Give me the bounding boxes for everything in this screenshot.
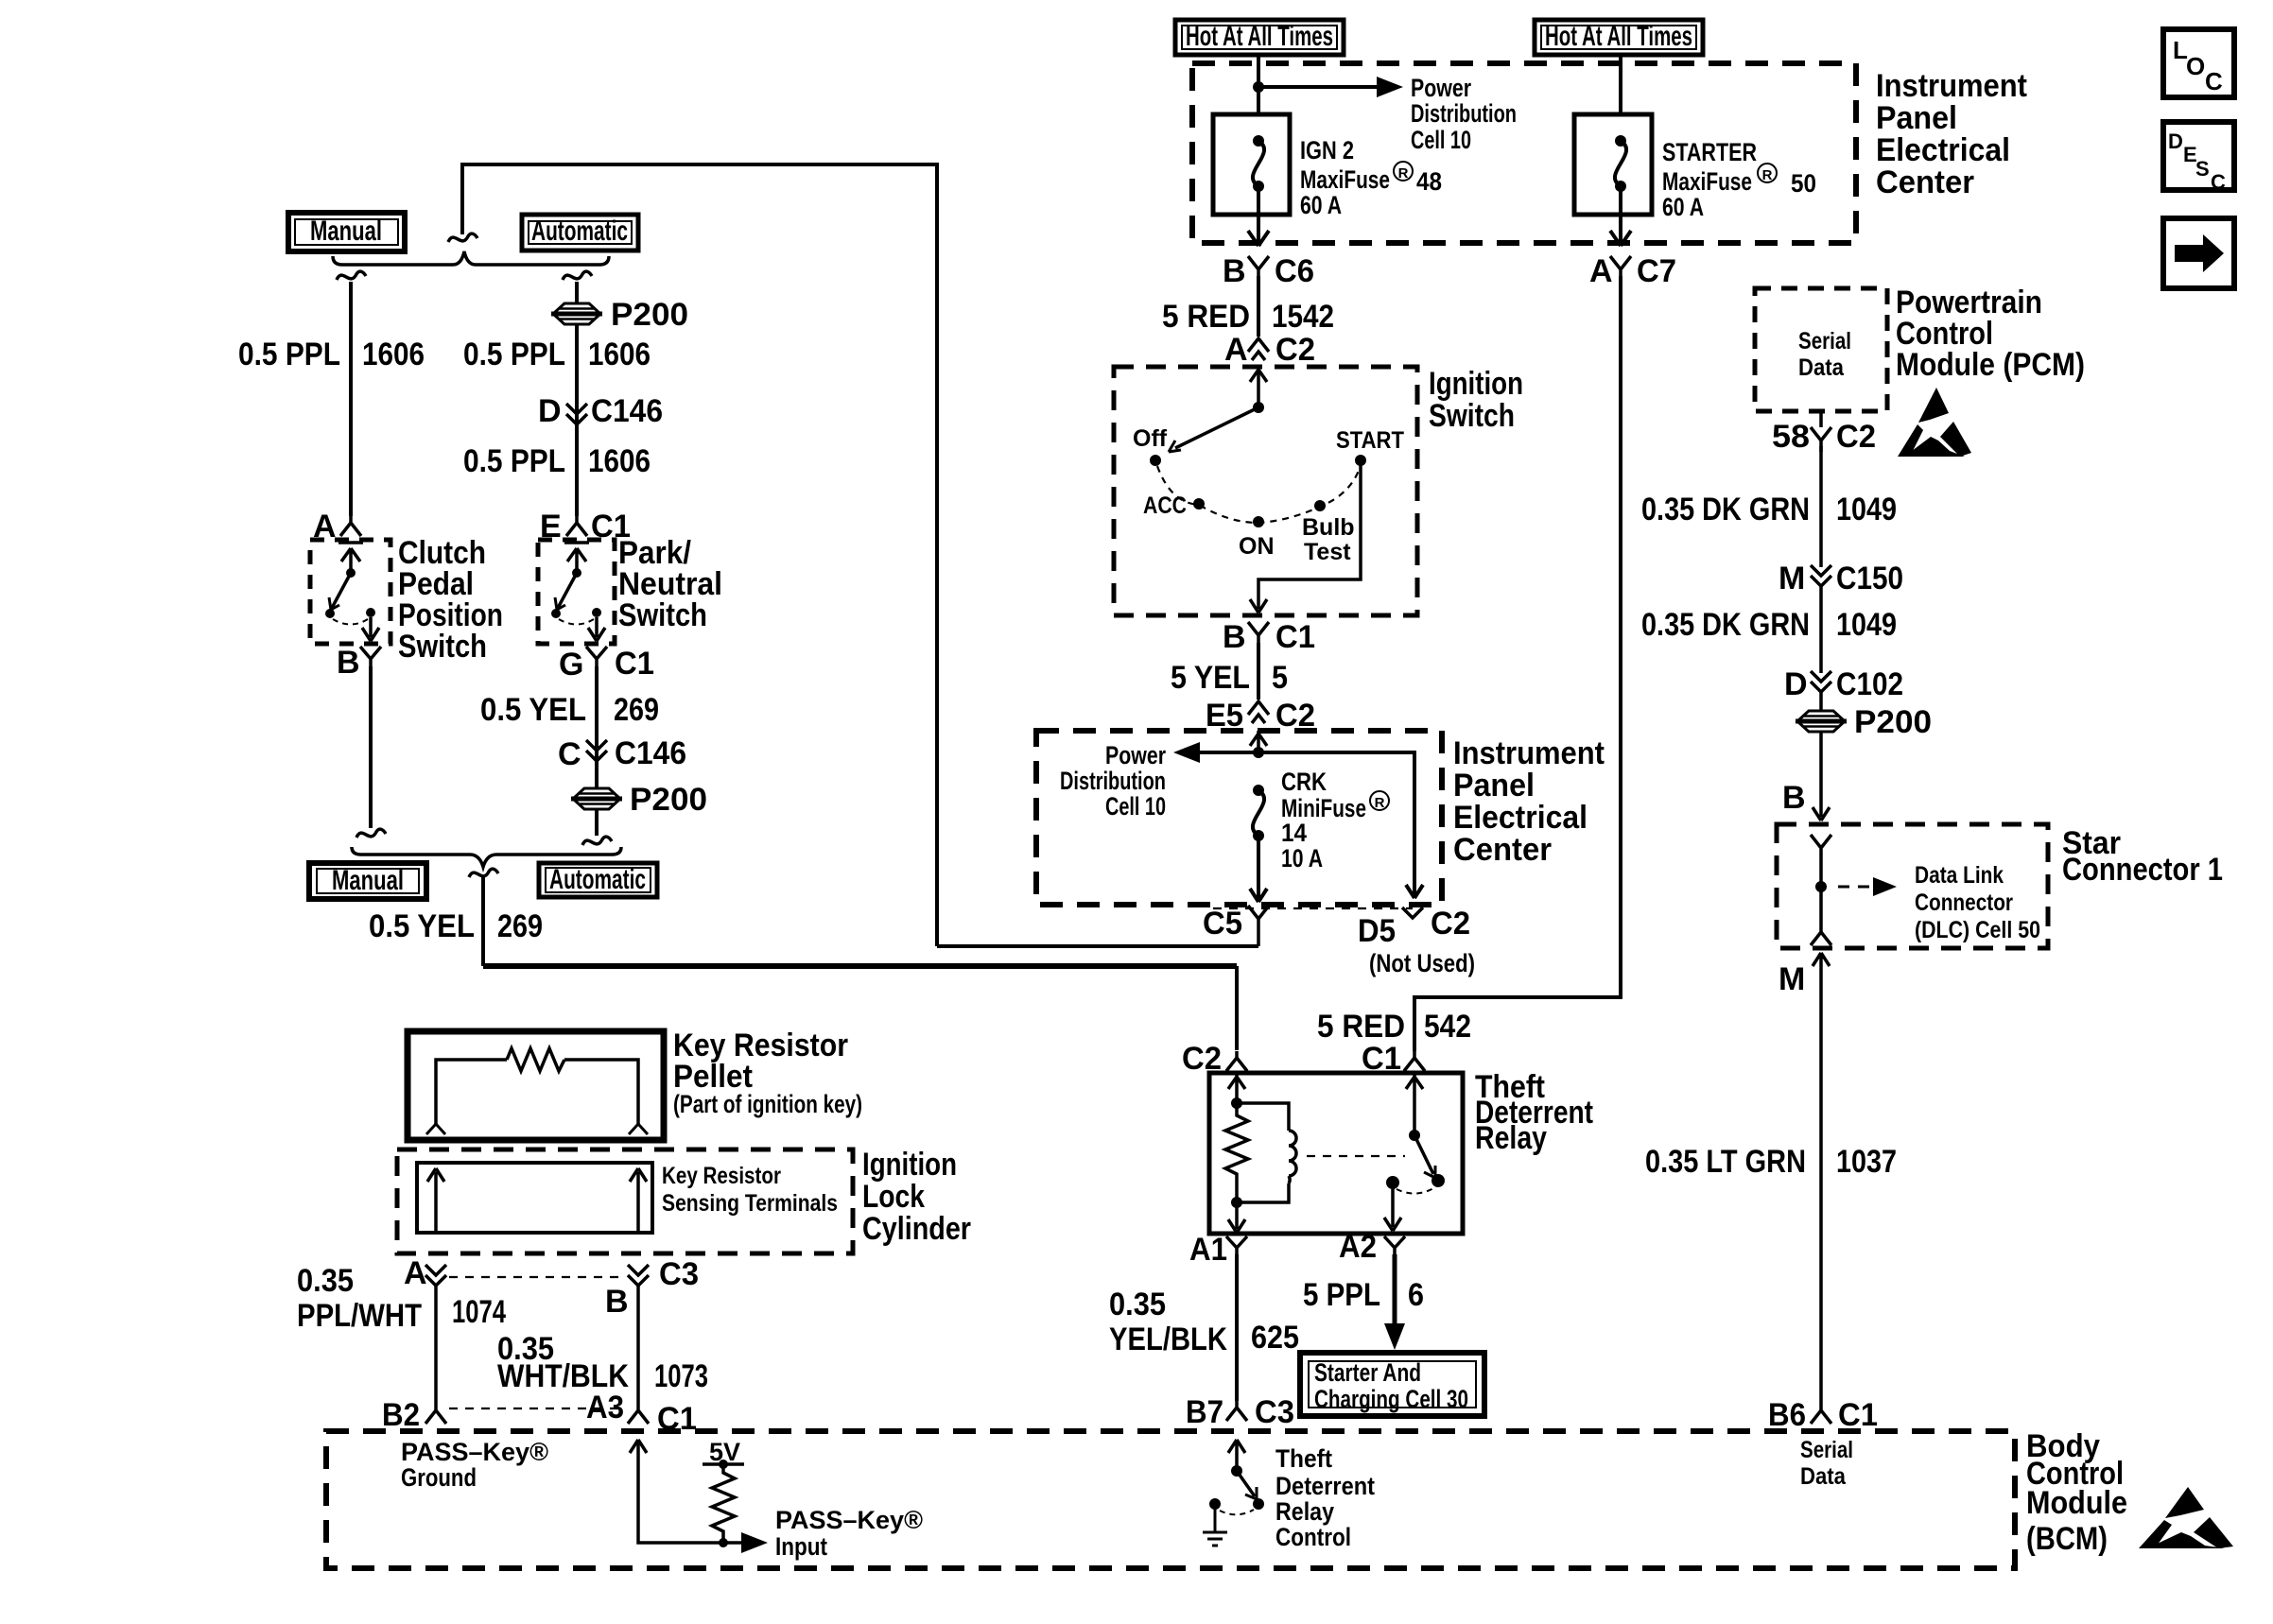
- svg-text:Panel: Panel: [1453, 768, 1535, 803]
- svg-text:C3: C3: [659, 1256, 699, 1292]
- svg-text:C6: C6: [1275, 253, 1314, 289]
- svg-text:10 A: 10 A: [1281, 844, 1323, 872]
- label 5 YEL 5: [1171, 660, 1288, 696]
- node Automatic (top): [522, 215, 638, 251]
- park/neutral contact dots: [551, 609, 561, 618]
- node Automatic (bottom): [539, 863, 657, 897]
- connector line thin dashed (bottom): [449, 1408, 625, 1409]
- svg-text:5 PPL: 5 PPL: [1303, 1277, 1380, 1313]
- svg-text:(Part of ignition key): (Part of ignition key): [673, 1090, 862, 1118]
- svg-text:60 A: 60 A: [1662, 193, 1704, 221]
- svg-text:B: B: [605, 1284, 629, 1320]
- svg-text:Power: Power: [1411, 74, 1471, 102]
- label Powertrain Control Module (PCM): [1896, 285, 2085, 383]
- dashed arrow to DLC: [1838, 886, 1876, 889]
- svg-text:B: B: [1223, 619, 1246, 655]
- svg-text:1074: 1074: [452, 1294, 506, 1330]
- svg-text:O: O: [2186, 52, 2205, 80]
- wire START to output: [1250, 460, 1361, 613]
- svg-text:Sensing Terminals: Sensing Terminals: [662, 1190, 838, 1217]
- svg-text:0.35 DK GRN: 0.35 DK GRN: [1641, 492, 1810, 527]
- svg-text:Connector: Connector: [1915, 890, 2013, 916]
- connector D C102: [1811, 671, 1831, 692]
- svg-text:C: C: [2211, 170, 2226, 194]
- resistor (key pellet): [507, 1048, 564, 1071]
- wire arrow into star box: [1813, 807, 1830, 821]
- wire serial data long arrow: [1813, 953, 1830, 1403]
- wire WHT/BLK: [636, 1286, 640, 1403]
- wire M to D: [1819, 584, 1823, 673]
- svg-text:1049: 1049: [1836, 607, 1897, 643]
- arrow reference box: [2163, 218, 2234, 288]
- clutch switch fixed contact: [338, 543, 363, 571]
- svg-text:0.5 PPL: 0.5 PPL: [463, 337, 565, 372]
- svg-text:C102: C102: [1836, 666, 1903, 702]
- wire starter long drop: [1414, 276, 1621, 1051]
- clutch pedal position switch box: [310, 540, 390, 644]
- wire fuse IGN2 output arrow: [1248, 186, 1269, 246]
- fuse STARTER MaxiFuse 50: [1574, 114, 1652, 215]
- label Theft Deterrent Relay Control: [1275, 1444, 1375, 1551]
- svg-text:ACC: ACC: [1143, 492, 1187, 519]
- svg-text:MaxiFuse: MaxiFuse: [1300, 165, 1390, 194]
- instrument panel electrical center box (lower): [1036, 731, 1442, 905]
- key resistor circuit: [436, 1060, 638, 1126]
- svg-text:Ignition: Ignition: [862, 1147, 957, 1183]
- wire B C1 to E5 C2: [1257, 643, 1260, 700]
- ignition switch wiper arm: [1253, 402, 1264, 413]
- brace manual/automatic bottom: [352, 847, 621, 867]
- svg-text:Module: Module: [2026, 1485, 2127, 1521]
- label 0.5 YEL 269 (automatic lower): [480, 692, 659, 728]
- connector B2 fork: [425, 1403, 446, 1424]
- relay coil: [1237, 1103, 1296, 1202]
- svg-text:A: A: [404, 1255, 427, 1291]
- svg-text:48: 48: [1416, 167, 1442, 196]
- svg-text:S: S: [2195, 157, 2210, 181]
- svg-text:C1: C1: [1838, 1397, 1878, 1433]
- node Manual (top): [288, 213, 405, 251]
- svg-text:B6: B6: [1768, 1397, 1806, 1433]
- label Key Resistor Pellet (Part of ignition key): [673, 1028, 862, 1118]
- node junction (lower box): [1253, 747, 1264, 758]
- connector A (lock cylinder): [425, 1265, 446, 1286]
- connector C C146: [586, 740, 607, 761]
- svg-text:Switch: Switch: [618, 597, 707, 633]
- svg-text:Instrument: Instrument: [1876, 68, 2027, 104]
- svg-text:Distribution: Distribution: [1411, 99, 1517, 128]
- connector C5 fork: [1248, 906, 1269, 946]
- svg-text:D: D: [538, 393, 562, 429]
- svg-text:PASS–Key®: PASS–Key®: [775, 1506, 923, 1534]
- svg-text:MaxiFuse: MaxiFuse: [1662, 167, 1752, 196]
- svg-text:Connector 1: Connector 1: [2062, 852, 2223, 888]
- symbol ESD sensitive (bcm): [2139, 1487, 2233, 1548]
- connector A C7 fork: [1610, 256, 1631, 282]
- svg-text:1606: 1606: [588, 337, 651, 372]
- symbol registered trademark (STARTER): [1758, 164, 1777, 183]
- svg-text:1606: 1606: [588, 443, 651, 479]
- connector B7 C3 fork: [1226, 1401, 1247, 1421]
- svg-text:14: 14: [1281, 819, 1307, 847]
- wire fuse STARTER output arrow: [1610, 186, 1631, 246]
- svg-text:B: B: [1223, 253, 1246, 289]
- wire break symbol bottom cusp: [469, 869, 498, 877]
- wire A2 to starter cell arrow: [1393, 1254, 1397, 1328]
- svg-text:C2: C2: [1431, 906, 1470, 942]
- wire PPL/WHT: [434, 1286, 438, 1403]
- svg-text:D: D: [2168, 130, 2183, 153]
- symbol registered trademark (IGN2): [1394, 162, 1413, 181]
- label Body Control Module (BCM): [2026, 1428, 2127, 1557]
- wire power distribution arrow (lower, left): [1194, 751, 1258, 754]
- svg-text:Center: Center: [1453, 832, 1552, 868]
- wire pass-key input arrow: [630, 1440, 747, 1543]
- label 0.35 LT GRN 1037: [1645, 1144, 1897, 1180]
- label Theft Deterrent Relay: [1475, 1069, 1593, 1156]
- connector D5 chevron: [1402, 907, 1423, 918]
- svg-text:START: START: [1336, 427, 1404, 454]
- svg-text:Instrument: Instrument: [1453, 735, 1605, 771]
- bcm switch contact dots: [1253, 1498, 1264, 1510]
- label 0.5 YEL 269 (bottom): [369, 908, 543, 944]
- clutch switch output arrow: [362, 617, 379, 641]
- ignition switch box: [1114, 367, 1417, 615]
- svg-text:YEL/BLK: YEL/BLK: [1109, 1322, 1227, 1357]
- svg-text:6: 6: [1408, 1277, 1424, 1313]
- svg-text:Manual: Manual: [310, 216, 382, 247]
- svg-text:Theft: Theft: [1275, 1444, 1332, 1473]
- svg-text:(BCM): (BCM): [2026, 1521, 2108, 1557]
- svg-text:A: A: [1589, 253, 1613, 289]
- svg-text:Module (PCM): Module (PCM): [1896, 347, 2085, 383]
- wire top feed stub: [460, 164, 464, 234]
- label Power Distribution Cell 10 (lower): [1060, 741, 1166, 821]
- svg-text:Key Resistor: Key Resistor: [662, 1163, 781, 1189]
- label Instrument Panel Electrical Center (top): [1876, 68, 2027, 200]
- svg-text:A: A: [1224, 332, 1248, 368]
- relay switch input arrow: [1406, 1073, 1423, 1135]
- label Power Distribution Cell 10 (top): [1411, 74, 1517, 154]
- 5V supply bar: [703, 1462, 744, 1466]
- desc reference box: [2163, 122, 2234, 194]
- park/neutral switch box: [538, 540, 615, 644]
- clutch switch contact dots: [325, 609, 335, 618]
- label IGN 2 MaxiFuse 48 60 A: [1300, 136, 1442, 219]
- label STARTER MaxiFuse 50 60 A: [1662, 138, 1816, 221]
- wire D to P200: [1819, 690, 1823, 817]
- svg-text:B: B: [337, 645, 360, 681]
- fuse IGN 2 MaxiFuse 48: [1213, 114, 1290, 215]
- svg-text:Data: Data: [1798, 354, 1845, 381]
- wire automatic branch upper: [575, 282, 579, 516]
- ignition lock cylinder box: [397, 1149, 853, 1253]
- svg-text:A1: A1: [1189, 1232, 1227, 1268]
- svg-text:0.5 YEL: 0.5 YEL: [480, 692, 586, 728]
- splice P200 (automatic upper): [551, 303, 602, 324]
- wire bottom horizontal to relay: [483, 963, 1237, 969]
- label 0.35 WHT/BLK 1073: [497, 1331, 708, 1394]
- wire top feed horizontal: [460, 163, 939, 166]
- label 5 PPL 6: [1303, 1277, 1424, 1313]
- ignition switch contact START: [1355, 455, 1366, 466]
- label 0.5 PPL 1606 (automatic upper): [463, 337, 651, 372]
- fuse CRK MiniFuse: [1253, 785, 1264, 841]
- ground (bcm switch): [1203, 1504, 1227, 1546]
- relay mechanical link dashed: [1307, 1155, 1405, 1157]
- wire to right branch (D5): [1258, 752, 1423, 898]
- splice P200 (serial data): [1796, 711, 1847, 732]
- star connector box: [1777, 824, 2048, 948]
- relay switch pivot: [1409, 1130, 1420, 1141]
- svg-text:(DLC) Cell 50: (DLC) Cell 50: [1915, 917, 2040, 943]
- svg-text:B: B: [1782, 780, 1806, 816]
- svg-text:ON: ON: [1239, 533, 1275, 560]
- label PASS-Key Input: [775, 1506, 923, 1561]
- svg-text:Electrical: Electrical: [1876, 132, 2010, 168]
- connector C3 (lock cylinder): [628, 1265, 649, 1286]
- wire B C6 to A C2: [1257, 276, 1260, 337]
- connector A2 fork: [1384, 1236, 1405, 1259]
- node Hot At All Times (right): [1535, 20, 1703, 55]
- svg-text:Data Link: Data Link: [1915, 862, 2004, 889]
- wire break symbol manual lower: [356, 829, 386, 838]
- svg-text:C3: C3: [1255, 1394, 1294, 1430]
- svg-text:C7: C7: [1637, 253, 1676, 289]
- svg-text:Cylinder: Cylinder: [862, 1211, 971, 1247]
- svg-text:Lock: Lock: [862, 1179, 925, 1215]
- svg-text:Automatic: Automatic: [549, 864, 646, 895]
- park/neutral output arrow: [588, 617, 605, 641]
- svg-text:0.35 LT GRN: 0.35 LT GRN: [1645, 1144, 1806, 1180]
- svg-text:B2: B2: [382, 1397, 420, 1433]
- label Ignition Switch: [1429, 366, 1523, 434]
- svg-text:A2: A2: [1339, 1229, 1377, 1265]
- svg-text:CRK: CRK: [1281, 768, 1327, 796]
- resistor (pass-key pullup): [712, 1464, 735, 1543]
- svg-text:5: 5: [1272, 660, 1288, 696]
- node Starter And Charging Cell 30: [1300, 1353, 1484, 1416]
- svg-text:R: R: [1762, 167, 1773, 183]
- park/neutral dashed throw arc: [559, 619, 594, 625]
- key resistor pellet box: [408, 1031, 664, 1140]
- svg-text:M: M: [1778, 961, 1805, 997]
- bcm switch pivot: [1231, 1465, 1242, 1477]
- svg-text:C1: C1: [1275, 619, 1315, 655]
- svg-text:Switch: Switch: [398, 629, 487, 665]
- theft deterrent relay control arrow: [1228, 1440, 1245, 1468]
- clutch switch arm: [346, 568, 356, 578]
- ignition switch contact ACC: [1193, 498, 1205, 510]
- svg-text:STARTER: STARTER: [1662, 138, 1757, 166]
- powertrain control module box: [1755, 288, 1887, 411]
- wire CRK output arrow: [1250, 836, 1267, 902]
- svg-text:C150: C150: [1836, 561, 1903, 596]
- svg-text:Test: Test: [1304, 539, 1351, 565]
- svg-text:B7: B7: [1186, 1394, 1223, 1430]
- splice P200 (automatic lower): [571, 788, 622, 809]
- svg-text:Serial: Serial: [1800, 1437, 1853, 1463]
- wire A1 to B7: [1235, 1254, 1239, 1401]
- svg-text:58: 58: [1772, 419, 1810, 455]
- svg-text:1542: 1542: [1272, 299, 1334, 335]
- svg-text:0.35: 0.35: [1109, 1287, 1166, 1322]
- svg-text:542: 542: [1424, 1009, 1471, 1045]
- wire break symbol automatic branch: [563, 271, 592, 280]
- node Hot At All Times (left): [1175, 20, 1344, 55]
- svg-text:1606: 1606: [362, 337, 425, 372]
- svg-text:PPL/WHT: PPL/WHT: [297, 1298, 422, 1334]
- relay coil branch input arrow: [1228, 1073, 1245, 1103]
- connector C1 fork (relay): [1404, 1051, 1425, 1071]
- svg-text:1049: 1049: [1836, 492, 1897, 527]
- label 0.35 YEL/BLK 625: [1109, 1287, 1299, 1357]
- connector A C2: [1248, 338, 1269, 360]
- theft deterrent relay box: [1209, 1073, 1463, 1234]
- ignition switch contact ON: [1253, 516, 1264, 527]
- label 0.5 PPL 1606 (automatic lower): [463, 443, 651, 479]
- label Clutch Pedal Position Switch: [398, 535, 503, 665]
- resistor (relay): [1225, 1103, 1248, 1202]
- connector E C1 fork: [566, 516, 587, 536]
- svg-text:C146: C146: [615, 735, 686, 771]
- svg-text:Hot At All Times: Hot At All Times: [1186, 21, 1333, 52]
- label 0.35 PPL/WHT 1074: [297, 1263, 506, 1334]
- svg-text:D5: D5: [1358, 913, 1396, 949]
- wire automatic branch lower: [595, 666, 599, 836]
- svg-text:M: M: [1778, 561, 1805, 596]
- wire break symbol automatic lower: [582, 837, 612, 845]
- svg-text:Panel: Panel: [1876, 100, 1957, 136]
- svg-text:C2: C2: [1836, 419, 1876, 455]
- node junction: [1253, 81, 1264, 93]
- connector B6 C1 fork: [1811, 1403, 1831, 1424]
- bcm switch dashed throw arc: [1220, 1510, 1254, 1514]
- svg-text:(Not Used): (Not Used): [1369, 949, 1475, 977]
- svg-text:Deterrent: Deterrent: [1275, 1472, 1375, 1500]
- label Park/ Neutral Switch: [618, 535, 722, 633]
- node relay top junction: [1231, 1097, 1242, 1109]
- key resistor sensing terminals box: [417, 1163, 652, 1233]
- svg-text:0.35: 0.35: [297, 1263, 354, 1299]
- svg-text:Data: Data: [1800, 1463, 1847, 1490]
- svg-text:Bulb: Bulb: [1302, 514, 1355, 541]
- label Instrument Panel Electrical Center (lower): [1453, 735, 1605, 868]
- label 0.5 PPL 1606 (manual): [238, 337, 425, 372]
- star connector bus: [1811, 835, 1831, 945]
- connector line C2 (thin dashed): [1213, 907, 1413, 909]
- svg-text:Serial: Serial: [1798, 328, 1851, 354]
- connector 58 C2 fork: [1811, 427, 1831, 452]
- svg-text:Manual: Manual: [332, 865, 404, 896]
- svg-text:P200: P200: [1854, 704, 1932, 740]
- svg-text:C1: C1: [615, 646, 654, 682]
- brace manual/automatic top: [333, 251, 609, 265]
- wire manual branch lower: [369, 666, 373, 828]
- svg-text:1073: 1073: [654, 1358, 708, 1394]
- instrument panel electrical center box (top): [1192, 63, 1856, 243]
- svg-text:Distribution: Distribution: [1060, 767, 1166, 795]
- node Manual (bottom): [309, 863, 426, 899]
- connector line thin dashed (top): [449, 1276, 625, 1278]
- relay switch arm: [1414, 1135, 1433, 1174]
- svg-text:5 RED: 5 RED: [1317, 1009, 1405, 1045]
- wire right return vertical: [935, 163, 939, 946]
- wire C5 return: [937, 944, 1258, 948]
- svg-text:Power: Power: [1105, 741, 1166, 769]
- label Ignition Lock Cylinder: [862, 1147, 971, 1247]
- clutch switch dashed throw arc: [333, 619, 368, 625]
- sensing terminal arrows: [427, 1168, 647, 1233]
- svg-text:Cell 10: Cell 10: [1105, 792, 1166, 821]
- svg-text:D: D: [1784, 666, 1808, 702]
- connector D C146: [566, 404, 587, 424]
- svg-text:P200: P200: [611, 297, 688, 333]
- svg-text:P200: P200: [630, 782, 707, 818]
- connector C2 fork (relay): [1226, 1051, 1247, 1071]
- svg-text:Ignition: Ignition: [1429, 366, 1523, 402]
- connector E5 C2: [1248, 701, 1269, 723]
- wire manual branch 0.5 PPL 1606: [349, 282, 353, 516]
- svg-text:0.35 DK GRN: 0.35 DK GRN: [1641, 607, 1810, 643]
- label PASS-Key Ground: [401, 1438, 548, 1492]
- svg-text:269: 269: [497, 908, 543, 944]
- connector B C6 fork: [1248, 256, 1269, 282]
- connector B C1 fork: [1248, 622, 1269, 648]
- svg-text:R: R: [1398, 165, 1409, 181]
- svg-text:625: 625: [1251, 1320, 1299, 1356]
- label Data Link Connector (DLC) Cell 50: [1915, 862, 2040, 943]
- ignition switch contact Off: [1150, 455, 1161, 466]
- label Serial Data (bcm): [1800, 1437, 1853, 1490]
- connector M C150: [1811, 565, 1831, 586]
- svg-text:Off: Off: [1133, 425, 1168, 452]
- svg-text:Electrical: Electrical: [1453, 800, 1588, 836]
- svg-text:Charging Cell 30: Charging Cell 30: [1314, 1385, 1468, 1413]
- svg-text:50: 50: [1791, 169, 1816, 198]
- park/neutral fixed contact: [564, 543, 589, 571]
- wire 0.5 YEL 269 drop: [481, 877, 485, 966]
- label 0.35 DK GRN 1049 (lower): [1641, 607, 1897, 643]
- park/neutral switch arm: [572, 568, 581, 578]
- label CRK MiniFuse 14 10 A: [1281, 768, 1366, 872]
- svg-text:0.5 PPL: 0.5 PPL: [463, 443, 565, 479]
- relay switch contact dots: [1431, 1174, 1445, 1187]
- ignition switch input arrow: [1250, 367, 1267, 407]
- relay coil output arrow: [1228, 1202, 1245, 1233]
- connector B fork: [360, 647, 381, 671]
- connector A3 fork: [628, 1403, 649, 1424]
- svg-text:0.5 PPL: 0.5 PPL: [238, 337, 340, 372]
- symbol ESD sensitive (pcm): [1898, 388, 1971, 457]
- wire 58 to M: [1819, 446, 1823, 567]
- svg-text:Switch: Switch: [1429, 398, 1515, 434]
- svg-text:Relay: Relay: [1475, 1120, 1547, 1156]
- wire break symbol top: [448, 233, 477, 242]
- svg-text:Cell 10: Cell 10: [1411, 126, 1471, 154]
- wire pcm to 58: [1819, 411, 1823, 427]
- wire hot to fuse STARTER: [1619, 55, 1622, 114]
- label Serial Data (pcm): [1798, 328, 1851, 381]
- ignition switch contact Bulb Test: [1314, 500, 1326, 511]
- node star junction: [1815, 881, 1827, 892]
- label Star Connector 1: [2062, 825, 2223, 888]
- node relay bottom junction: [1231, 1197, 1242, 1208]
- svg-text:Hot At All Times: Hot At All Times: [1545, 21, 1692, 52]
- bcm switch arm: [1237, 1471, 1255, 1496]
- loc reference box: [2163, 29, 2234, 97]
- label Key Resistor Sensing Terminals: [662, 1163, 838, 1217]
